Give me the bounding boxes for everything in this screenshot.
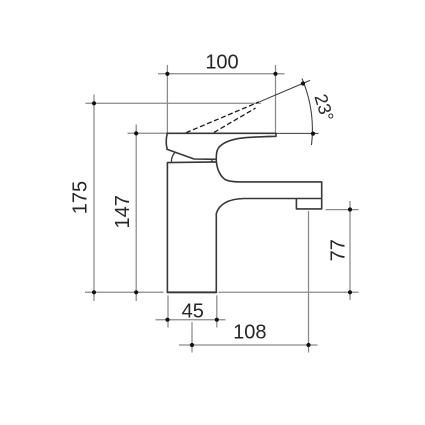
extension line 108 right (308, 211, 310, 353)
dot 175 top (92, 101, 96, 105)
svg-text:45: 45 (182, 300, 204, 322)
extension line 175 top (85, 102, 261, 104)
extension line 100 left (166, 65, 168, 133)
dot 147 top (134, 131, 138, 135)
angle reference line horizontal (276, 132, 319, 134)
dot 100 right (273, 72, 277, 76)
dot 175 bottom (92, 290, 96, 294)
extension line 45 left (167, 295, 169, 327)
svg-text:77: 77 (327, 239, 349, 261)
dot 77 bottom (348, 290, 352, 294)
dot angle bottom (311, 132, 315, 136)
svg-text:100: 100 (205, 51, 238, 73)
faucet base bottom edge (167, 291, 216, 293)
extension line 100 right (275, 65, 277, 133)
extension line 108 left (191, 322, 193, 353)
faucet body and spout outline (167, 162, 321, 292)
dashed raised lever bottom edge (214, 108, 256, 132)
dot angle top (301, 81, 305, 85)
extension line 77 top (326, 209, 359, 211)
dot 108 left (190, 343, 194, 347)
angle leader line 23deg (260, 80, 311, 101)
angle arc (302, 79, 312, 145)
faucet lever handle outline (166, 133, 276, 159)
dot 45 left (165, 318, 169, 322)
dot 147 bottom (134, 290, 138, 294)
lever pivot arc (171, 153, 174, 163)
dim line 175 (93, 95, 95, 302)
dot 100 left (165, 72, 169, 76)
dim line 108 (179, 344, 318, 346)
dot 77 top (348, 207, 352, 211)
extension line 45 right (216, 295, 218, 327)
dim line 147 (135, 125, 137, 302)
svg-text:175: 175 (70, 181, 92, 214)
spout bottom edge over outlet (296, 198, 321, 200)
lever rear tick (211, 160, 213, 162)
svg-text:108: 108 (233, 322, 266, 344)
dot 108 right (306, 343, 310, 347)
extension line bottom left (85, 291, 164, 293)
neck connector (215, 159, 217, 162)
extension line 147 top (128, 132, 167, 134)
extension line 77 bottom (219, 291, 359, 293)
dim line 77 (349, 201, 351, 300)
dashed raised lever top edge (186, 102, 259, 133)
dim line 45 (156, 319, 226, 321)
dim line 100 (158, 73, 285, 75)
dot 45 right (215, 318, 219, 322)
svg-text:147: 147 (112, 195, 134, 228)
